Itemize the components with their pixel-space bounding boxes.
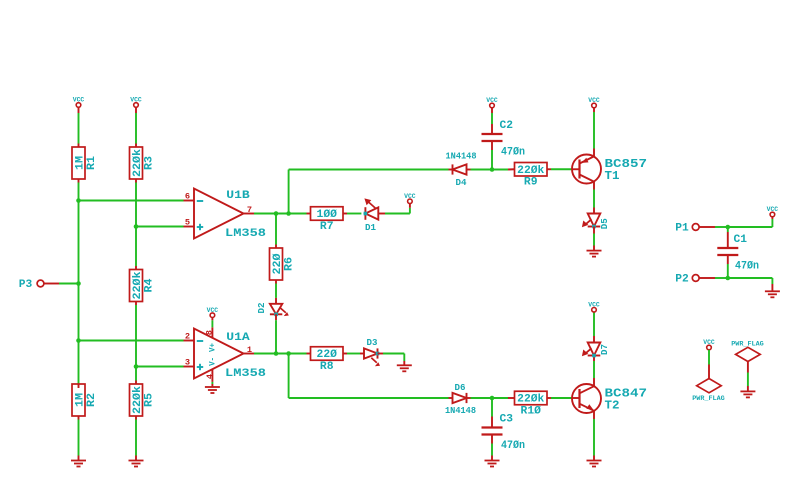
svg-text:1N4148: 1N4148: [445, 405, 476, 416]
power symbol VCC above T1: [588, 97, 600, 108]
wire down to D6 row: [289, 354, 449, 399]
transistor T2 BC847: [572, 384, 647, 413]
wire VCC to R1: [78, 107, 80, 147]
svg-text:D3: D3: [367, 337, 378, 348]
svg-text:P1: P1: [675, 223, 689, 235]
svg-text:R7: R7: [320, 221, 334, 233]
power symbol VCC at D1: [404, 193, 416, 204]
wire P3 to junction: [44, 283, 79, 285]
connector P1: [675, 223, 699, 235]
wire C3 to ground: [491, 435, 493, 461]
node junction out2-b: [286, 351, 291, 356]
svg-text:VCC: VCC: [703, 339, 715, 346]
node junction out1-b: [286, 211, 291, 216]
wire D2 to out2: [275, 314, 277, 353]
power symbol VCC above C2: [486, 97, 498, 108]
LED D1: [364, 198, 379, 233]
capacitor C2 470n: [482, 120, 526, 159]
svg-text:PWR_FLAG: PWR_FLAG: [731, 340, 764, 347]
wire VCC to C2: [491, 108, 493, 134]
wire R7 stubs: [307, 213, 362, 215]
power symbol VCC above U1A: [207, 307, 219, 318]
wire R9 stubs: [508, 168, 580, 170]
capacitor C1 470n: [717, 234, 759, 273]
wire junction to C1: [727, 227, 729, 248]
wire D3 to ground: [378, 354, 405, 366]
svg-text:2: 2: [185, 332, 190, 342]
power symbol VCC above D7: [588, 301, 600, 312]
resistor R2 1M: [72, 384, 98, 416]
svg-text:D4: D4: [456, 177, 467, 188]
svg-text:R9: R9: [524, 177, 538, 189]
svg-text:6: 6: [185, 192, 190, 202]
svg-text:47Øn: 47Øn: [501, 440, 525, 452]
power flag PWR_FLAG on GND: [731, 340, 764, 397]
capacitor C3 470n: [482, 414, 526, 453]
pin 8 V+ to VCC: [204, 318, 214, 338]
svg-text:V+: V+: [209, 343, 218, 352]
node junction pin5: [134, 224, 139, 229]
node junction P3: [76, 281, 81, 286]
svg-text:VCC: VCC: [767, 206, 779, 213]
pin 1 stub: [244, 353, 255, 355]
node junction out1-a: [274, 211, 279, 216]
ground under R5: [129, 461, 144, 467]
wire C1 to P2 row: [727, 255, 729, 278]
svg-text:LM358: LM358: [225, 228, 266, 240]
wire R3 to R4: [135, 179, 137, 270]
wire VCC to R3: [135, 107, 137, 147]
wire D7 to VCC: [593, 312, 595, 343]
svg-text:V-: V-: [209, 357, 218, 366]
svg-text:VCC: VCC: [588, 301, 600, 308]
svg-text:VCC: VCC: [588, 97, 600, 104]
wire R2 to ground: [78, 416, 80, 461]
power flag PWR_FLAG on VCC: [692, 339, 725, 402]
resistor R7 100: [311, 207, 344, 233]
node junction C3: [490, 396, 495, 401]
svg-text:U1A: U1A: [226, 332, 250, 344]
svg-text:C2: C2: [500, 120, 514, 132]
wire R6 to D2: [275, 280, 277, 304]
svg-text:D5: D5: [599, 218, 610, 229]
wire R1 to R2 bus: [78, 179, 80, 388]
node junction pin3: [134, 364, 139, 369]
wire R10 stubs: [508, 397, 580, 399]
connector P2: [675, 274, 699, 286]
node junction P1 C1: [726, 225, 731, 230]
svg-text:47Øn: 47Øn: [501, 147, 525, 159]
wire up to D4 row: [289, 170, 449, 214]
wire R5 to ground: [135, 416, 137, 461]
wire D6 to junction: [471, 397, 509, 399]
svg-text:22Øk: 22Øk: [517, 165, 545, 177]
power symbol VCC above R1: [73, 97, 85, 108]
wire out1 to R6: [275, 214, 277, 249]
ground under T2: [587, 461, 602, 467]
svg-text:R3: R3: [143, 156, 155, 170]
op-amp U1A LM358: [185, 329, 267, 381]
svg-text:22Ø: 22Ø: [317, 349, 338, 361]
resistor R9 220k: [515, 163, 548, 189]
wire junction to pin 3: [136, 366, 194, 368]
wire R8 stubs: [307, 353, 361, 355]
pin 4 V- to ground: [205, 370, 215, 388]
ground under R2: [71, 461, 86, 467]
svg-text:VCC: VCC: [73, 97, 85, 104]
diode D4 1N4148: [446, 150, 477, 187]
svg-text:VCC: VCC: [207, 307, 219, 314]
ground after D3: [397, 365, 412, 371]
node junction R1 pin6: [76, 198, 81, 203]
svg-text:U1B: U1B: [226, 190, 250, 202]
ground under D5: [587, 251, 602, 257]
node junction C2: [490, 167, 495, 172]
svg-text:C1: C1: [734, 234, 748, 246]
LED D2: [256, 302, 289, 316]
pin 7 stub: [244, 213, 255, 215]
svg-text:R4: R4: [143, 278, 155, 292]
svg-text:4: 4: [205, 374, 215, 379]
wire junction to pin 2: [79, 340, 195, 342]
svg-text:VCC: VCC: [486, 97, 498, 104]
svg-text:C3: C3: [500, 414, 514, 426]
svg-text:R8: R8: [320, 361, 334, 373]
op-amp U1B LM358: [185, 189, 267, 241]
svg-text:5: 5: [185, 218, 190, 228]
resistor R6 220: [270, 248, 296, 280]
svg-text:R6: R6: [283, 257, 295, 271]
wire D1 to VCC: [378, 204, 410, 214]
LED D3: [360, 337, 380, 366]
svg-text:D2: D2: [256, 302, 267, 313]
wire P2 row to ground: [728, 278, 773, 291]
ground at P2: [765, 291, 780, 297]
LED D7: [582, 343, 610, 358]
wire D4 to junction: [471, 169, 509, 171]
wire P2 to junction: [699, 277, 728, 279]
svg-text:VCC: VCC: [130, 97, 142, 104]
diode D6 1N4148: [445, 382, 476, 416]
transistor T1 BC857: [572, 155, 647, 184]
wire T2 collector to D7: [593, 356, 595, 387]
svg-text:22Øk: 22Øk: [517, 394, 545, 406]
wire U1B output: [254, 213, 307, 215]
LED D5: [582, 214, 610, 230]
wire T2 emitter to ground: [593, 411, 595, 461]
svg-text:PWR_FLAG: PWR_FLAG: [692, 395, 725, 402]
wire junction to C3: [491, 398, 493, 428]
svg-text:R2: R2: [86, 393, 98, 407]
svg-text:LM358: LM358: [225, 368, 266, 380]
svg-text:T1: T1: [605, 169, 620, 183]
svg-text:D6: D6: [455, 382, 466, 393]
wire junction to pin 6: [79, 200, 195, 202]
connector P3: [19, 279, 44, 291]
node junction P2 C1: [726, 276, 731, 281]
node junction pin2: [76, 338, 81, 343]
wire T1 emitter to VCC: [593, 108, 595, 157]
resistor R10 220k: [515, 391, 548, 417]
wire P1 to junction: [699, 226, 728, 228]
svg-text:8: 8: [204, 330, 214, 335]
node junction out2-a: [274, 351, 279, 356]
power symbol VCC above R3: [130, 97, 142, 108]
svg-text:T2: T2: [605, 398, 620, 412]
wire D5 to ground: [593, 227, 595, 251]
svg-text:47Øn: 47Øn: [735, 261, 759, 273]
wire C2 to junction: [491, 141, 493, 170]
ground under C3: [485, 461, 500, 467]
svg-text:R1Ø: R1Ø: [521, 405, 542, 417]
svg-text:P3: P3: [19, 279, 33, 291]
wire R4 to R5: [135, 302, 137, 385]
resistor R1 1M: [72, 147, 98, 179]
resistor R8 220: [311, 347, 344, 373]
wire P1 row to VCC: [728, 217, 773, 227]
svg-text:1N4148: 1N4148: [446, 150, 477, 161]
resistor R3 220k: [130, 147, 156, 179]
svg-text:R5: R5: [143, 393, 155, 407]
power symbol VCC at P1: [767, 206, 779, 217]
svg-text:1ØØ: 1ØØ: [317, 209, 338, 221]
svg-text:3: 3: [185, 358, 190, 368]
svg-text:D7: D7: [599, 344, 610, 355]
ground under U1A: [205, 387, 220, 393]
svg-text:VCC: VCC: [404, 193, 416, 200]
resistor R4 220k: [130, 270, 156, 302]
svg-text:P2: P2: [675, 274, 689, 286]
resistor R5 220k: [130, 384, 156, 416]
wire T1 collector to D5: [593, 182, 595, 214]
wire U1A output: [254, 353, 307, 355]
wire junction to pin 5: [136, 226, 194, 228]
svg-text:R1: R1: [86, 156, 98, 170]
svg-text:D1: D1: [365, 222, 376, 233]
